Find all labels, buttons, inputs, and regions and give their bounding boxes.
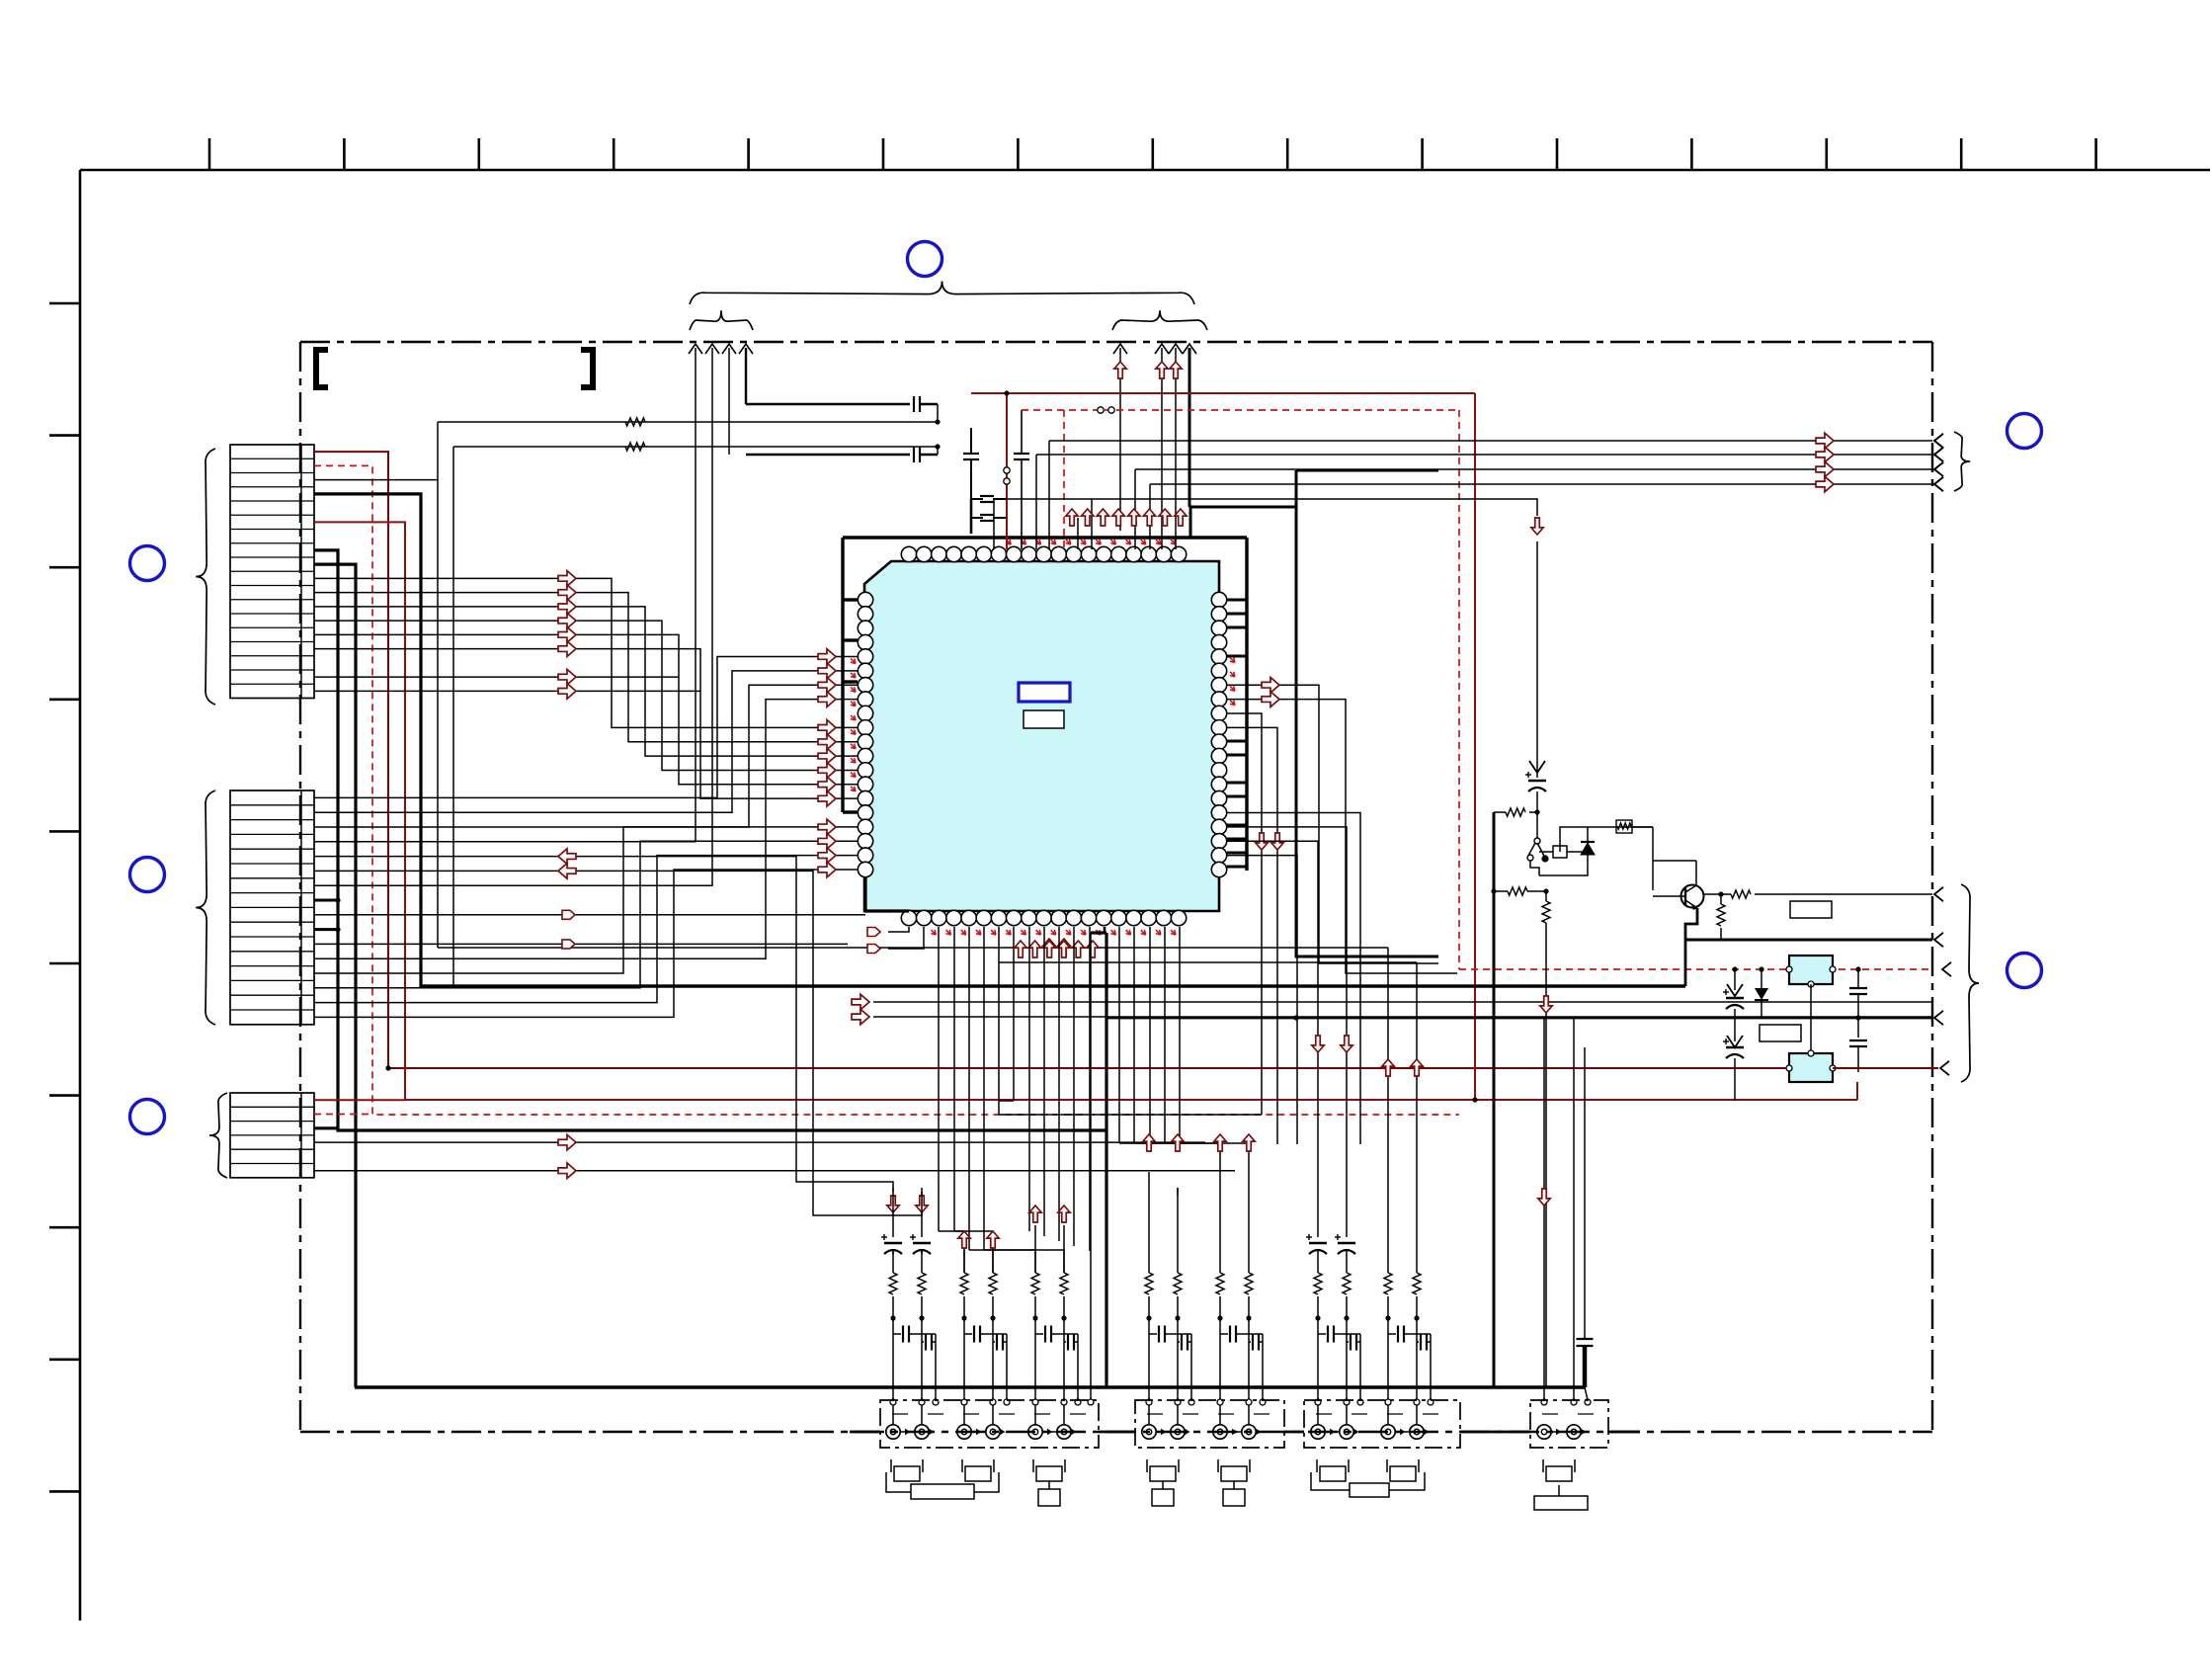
sheet border left tick marks — [49, 302, 80, 305]
CN2 stub-arrow lines — [314, 914, 865, 916]
IC left supply bus (thick) — [841, 538, 844, 812]
callout circle right upper — [2007, 414, 2042, 449]
connector CN1 (18-pin) — [230, 445, 314, 699]
bank 6-7 feed verticals — [1317, 1188, 1319, 1218]
sense resistor vertical — [1718, 891, 1723, 896]
phono jack block J4 — [1530, 1400, 1608, 1448]
zener diode right — [1761, 969, 1762, 988]
speaker terminal footprint A1 — [890, 1459, 892, 1472]
polarized cap right 1 — [1727, 984, 1743, 996]
terminal footprint G — [1542, 1459, 1544, 1472]
jack block jumpers (solid) — [850, 1431, 880, 1434]
IC U1 part-number box (blue) — [1019, 683, 1070, 702]
connector CN3 brace — [209, 1093, 227, 1178]
terminal footprint C — [1146, 1459, 1148, 1472]
phono jack block J1 — [880, 1400, 1099, 1448]
board name brackets — [316, 350, 328, 387]
IC U1 top pin bumps — [901, 546, 916, 561]
connector CN1 brace — [196, 449, 215, 705]
CN2 output line with left arrow to bottom bank B — [314, 871, 922, 1215]
top sub-brace right — [1112, 310, 1207, 330]
right edge chevrons upper group — [1934, 434, 1943, 448]
red dashed long horizontal — [1459, 968, 1932, 970]
bank1-3 connect — [892, 1188, 894, 1218]
wire CN1-18 line with arrow into maze — [314, 690, 700, 692]
bias resistor vertical — [1545, 891, 1547, 901]
coupling line lower (thick) with series cap — [746, 454, 910, 457]
IC right supply bus (thick) — [1245, 538, 1248, 871]
polarized cap C-top (right) — [1529, 761, 1545, 773]
wire CN1-17 line with arrow into maze — [314, 676, 679, 678]
connector CN2 brace — [196, 790, 215, 1025]
six maroon up arrows under IC — [1015, 941, 1026, 957]
regulator IC box 1 (cyan) — [1789, 956, 1833, 984]
phono jack block J3 — [1304, 1400, 1460, 1448]
IC bottom-left bus corner (thick) — [865, 876, 909, 911]
bank columns: bypass caps to ground drops — [890, 1315, 895, 1320]
connector CN3 (6-pin) — [230, 1093, 314, 1178]
line with down arrow to relay area — [994, 499, 1537, 516]
cap right upper — [1857, 969, 1859, 988]
sheet border top rule — [80, 169, 2210, 172]
IC right outputs to bottom banks — [1227, 813, 1360, 1144]
up arrows on bank feeds — [1382, 1059, 1394, 1076]
callout circle left middle — [130, 858, 165, 892]
terminal footprint D — [1217, 1459, 1219, 1472]
thick return line to chevron — [1685, 939, 1932, 942]
up arrows bank 2 — [958, 1231, 970, 1248]
harness bundle B verticals (right group) — [1119, 348, 1121, 531]
terminal footprint B — [1032, 1459, 1034, 1472]
callout circle top (CN group) — [908, 242, 942, 277]
wire CN1-3 sense line — [314, 479, 438, 481]
polarized caps on bank 6 — [1317, 1218, 1319, 1237]
wire CN1-1 (dark red) to right-side net — [314, 452, 1789, 1068]
row of maroon up arrows above IC — [1066, 509, 1078, 526]
component box (white) lower — [1760, 1025, 1801, 1041]
relay circuit frame — [1560, 827, 1653, 852]
CN2 up-and-over lines to IC left pins — [314, 656, 858, 797]
footprint A bridge plate — [886, 1472, 911, 1492]
IC U1 sub label box — [1024, 710, 1064, 728]
upper staircase to right-edge chevrons — [1049, 440, 1932, 442]
output line with resistor to chevron — [1704, 893, 1731, 895]
input filter lines with resistors — [438, 421, 938, 423]
relay coil box — [1553, 846, 1567, 858]
speaker terminal footprint A2 — [961, 1459, 963, 1472]
bottom pin verticals group A — [938, 927, 940, 1231]
mid maze horizontals below IC — [999, 1114, 1262, 1116]
IC bottom output lines (long, to right chevrons) — [873, 1001, 1932, 1003]
bank feed drop right A — [1387, 948, 1389, 1188]
wire CN3-3 thick joins bus net — [314, 1126, 338, 1129]
top sub-brace left — [690, 310, 753, 330]
callout circle left upper — [130, 546, 165, 581]
cap right lower — [1857, 1018, 1859, 1038]
callout circle right lower — [2007, 954, 2042, 988]
red supply net (top) — [971, 392, 1475, 394]
bottom pin verticals group C — [1118, 927, 1120, 1143]
fusible resistor FB — [1616, 820, 1632, 833]
regulator IC box 2 (cyan) — [1789, 1053, 1833, 1082]
resistor R-a — [1494, 811, 1506, 813]
transistor Q1 — [1681, 885, 1704, 908]
down arrows on bank feeds — [1312, 1036, 1324, 1052]
wire CN1-8 thick to CN3 net — [314, 550, 1106, 1130]
clock lines into IC top pins — [993, 499, 995, 549]
wire CN3-1 (red) joins supply net — [314, 1099, 405, 1101]
CN1 data lines staircase to IC left pins — [314, 578, 858, 727]
red-dash service net top — [1022, 409, 1459, 411]
polarized caps on bank 1 — [892, 1218, 894, 1237]
dark red horizontal net — [385, 1065, 390, 1070]
CN2 thick stub taps — [314, 899, 338, 902]
black thick net to right — [1106, 1017, 1932, 1020]
sense vertical B — [452, 447, 454, 986]
regulator interconnect vertical — [1810, 984, 1812, 1053]
emitter to thick rail — [1685, 908, 1697, 986]
bias resistor row — [1494, 890, 1508, 892]
wire CN3-6 line with arrow — [314, 1170, 1235, 1172]
maroon down arrows bank 1 — [887, 1196, 899, 1212]
footprint E-F bridge plate — [1311, 1472, 1350, 1490]
bank feed line right B — [999, 961, 1417, 963]
IC left bus pin stubs — [843, 598, 858, 601]
thick bus jog above IC right — [1189, 507, 1192, 538]
harness bundle A verticals (2 through lines) — [314, 348, 696, 842]
right lower brace — [1961, 884, 1979, 1082]
sheet border top tick marks — [208, 138, 211, 170]
IC right outputs upper (with arrows) — [1227, 685, 1438, 963]
wire CN1-6 (red) supply — [314, 522, 1857, 1100]
IC U1 right pin bumps — [1211, 592, 1226, 607]
bank columns: resistors — [892, 1251, 894, 1273]
polarized cap right 2 — [1727, 1036, 1743, 1047]
up arrows pair under IC — [1043, 939, 1055, 956]
CN2 up-and-over line to IC pin 8 — [314, 700, 858, 959]
IC pin red index marks — [1004, 538, 1013, 546]
bank 4-5 feed verticals — [1148, 1188, 1150, 1251]
right upper brace — [1954, 432, 1970, 491]
component box (white) upper — [1790, 901, 1832, 918]
CN2 riser lines to IC pins 17-18 — [314, 827, 858, 973]
box4 ground cap — [1584, 1047, 1586, 1339]
maroon out-arrows on chevron lines — [1816, 433, 1834, 449]
callout circle left lower — [130, 1100, 165, 1134]
transistor Q collector net — [1652, 827, 1654, 890]
up arrows mid-field — [1143, 1134, 1155, 1151]
wire CN1-2 (red dashed) shield net — [314, 465, 1459, 1115]
harness B maroon up arrows — [1114, 362, 1126, 378]
terminal footprint E — [1316, 1459, 1318, 1472]
thick bus drop right of IC — [1296, 470, 1438, 957]
dark red net into regulator 2 — [1833, 1067, 1938, 1069]
box4 feed lines — [1543, 1018, 1545, 1400]
sheet border left rule — [79, 170, 82, 1621]
wire CN1-4 thick digital bus — [314, 494, 1685, 986]
thick bottom drop — [1104, 927, 1106, 933]
top harness brace — [690, 282, 1194, 304]
harness bundle A verticals (2 coupling lines) — [728, 348, 730, 455]
coupling line upper (thick) with series cap — [746, 403, 910, 406]
IC bottom pins 1-2 to stub arrows — [888, 927, 909, 932]
IC right bus pin stubs — [1227, 599, 1247, 602]
switch SW — [1536, 812, 1538, 838]
CN2 output line with left arrow to bottom bank A — [314, 857, 893, 1192]
up arrows bank 3 — [1029, 1206, 1041, 1222]
red net lower riser — [1856, 1082, 1858, 1100]
wire CN3-2 (red dashed) joins shield net — [314, 1114, 372, 1116]
collector top wire — [1653, 860, 1696, 862]
bottom pin verticals group B — [1028, 927, 1030, 963]
IC U1 left pin bumps — [858, 592, 872, 607]
terminal footprint F — [1386, 1459, 1388, 1472]
wire CN1-9 thick ground drop — [314, 564, 356, 1387]
footprint G plate — [1558, 1485, 1560, 1496]
connector CN2 (16-pin) — [230, 790, 314, 1025]
ground bus (thick) — [355, 1385, 1585, 1388]
bank feed verticals continue — [1317, 1144, 1319, 1188]
right harness lines end chevrons — [1934, 434, 1943, 448]
phono jack block J2 — [1135, 1400, 1284, 1448]
stacked bypass caps — [971, 498, 983, 500]
IC right outputs with down arrows — [1227, 713, 1262, 1115]
sense vertical A — [437, 422, 439, 948]
board outline frame (dash-dot) — [300, 341, 1932, 343]
thick rail left of relay — [1493, 812, 1496, 1387]
switch drop line with down arrow — [1545, 923, 1547, 1387]
IC top supply bus (thick) — [843, 536, 1247, 539]
maroon dashed to chevron — [1942, 962, 1951, 976]
red supply drop right — [1474, 393, 1476, 1100]
IC U1 bottom pin bumps — [901, 910, 916, 925]
thick line below IC — [421, 984, 1685, 987]
flyback diode D — [1587, 827, 1589, 842]
decoupling caps above IC — [970, 428, 972, 454]
wire CN3-4 line with arrow — [314, 1141, 1205, 1143]
CN2 up-and-over lines to IC lower-left pins — [314, 856, 858, 1003]
bank feeds from lower stair — [1148, 1172, 1150, 1188]
IC U1 body — [864, 561, 1219, 911]
